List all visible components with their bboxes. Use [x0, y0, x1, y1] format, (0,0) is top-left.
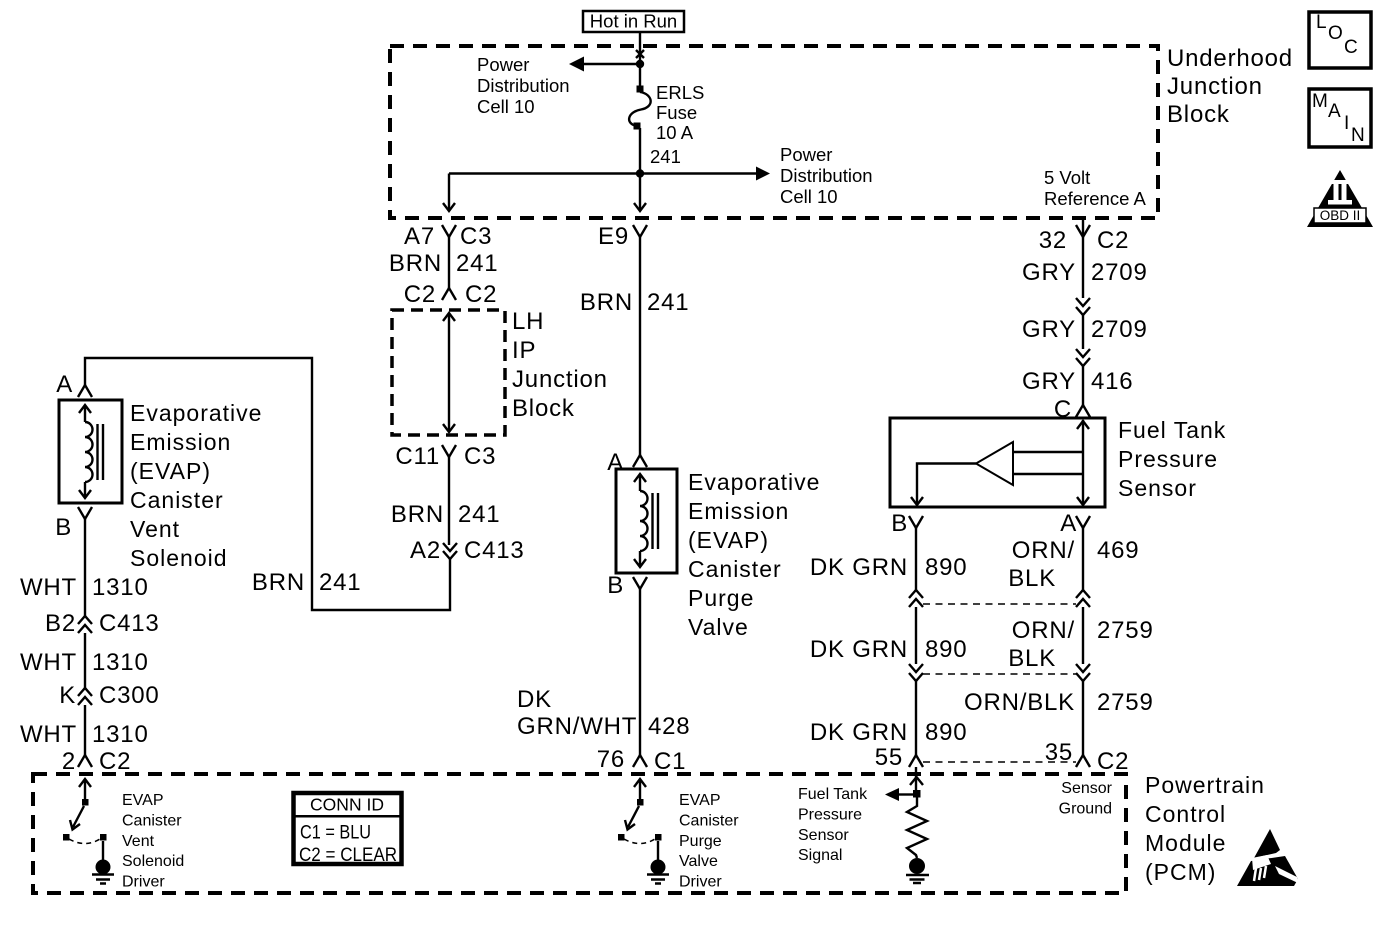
- wire: 241 distribution bus: [449, 172, 757, 174]
- connector boundary (PCM C2): [923, 761, 1076, 763]
- connector pin 55: [909, 755, 923, 767]
- svg-text:BRN: BRN: [580, 289, 633, 316]
- underhood junction block boundary: [390, 46, 1158, 218]
- transistor node (vent driver): [96, 860, 111, 875]
- svg-text:C2: C2: [1097, 748, 1129, 775]
- wire WHT 1310 segment 2: [84, 633, 86, 688]
- connector A7 / C3: [442, 225, 456, 237]
- connector purge valve pin B: [633, 577, 647, 589]
- svg-text:BRN: BRN: [389, 250, 442, 277]
- connector A2 / C413: [443, 543, 457, 559]
- inline connector pair row 1: [909, 590, 1090, 607]
- svg-text:C1 = BLU: C1 = BLU: [300, 823, 371, 844]
- svg-text:416: 416: [1091, 368, 1133, 395]
- purge valve coil: [634, 474, 648, 567]
- connector pin 35 / C2: [1076, 755, 1090, 767]
- connector C11 / C3: [442, 445, 456, 457]
- wire WHT 1310 segment 3: [84, 705, 86, 755]
- ESD warning symbol: [1237, 829, 1300, 886]
- wire GRY 2709 segment 1: [1082, 237, 1084, 298]
- wire DK GRN/WHT 428: [639, 589, 641, 755]
- svg-text:241: 241: [456, 250, 498, 277]
- node Hot in Run: [583, 11, 684, 33]
- svg-text:GRY: GRY: [1022, 316, 1076, 343]
- svg-text:B: B: [891, 510, 908, 537]
- svg-text:BLK: BLK: [1008, 565, 1056, 592]
- svg-text:2709: 2709: [1091, 259, 1148, 286]
- svg-text:1310: 1310: [92, 649, 149, 676]
- inline connector (GRY splice 1): [1076, 298, 1090, 315]
- svg-text:C: C: [1344, 37, 1358, 58]
- svg-text:241: 241: [458, 501, 500, 528]
- connector B2 / C413: [78, 616, 92, 633]
- boundary crossing mark: [636, 50, 644, 58]
- svg-text:C2 = CLEAR: C2 = CLEAR: [299, 845, 397, 866]
- pull-up resistor R1 (FTP signal): [907, 797, 927, 858]
- svg-text:1310: 1310: [92, 574, 149, 601]
- connector boundary (row 2): [923, 673, 1076, 675]
- connector C2 / C2: [442, 288, 456, 300]
- EVAP canister purge valve L2 (box): [616, 469, 677, 573]
- fuse ERLS element: [629, 92, 651, 126]
- svg-text:B: B: [607, 572, 624, 599]
- wire: fuse to 241 bus: [639, 64, 641, 87]
- wire GRY 416: [1082, 366, 1084, 405]
- svg-text:BRN: BRN: [252, 569, 305, 596]
- CONN ID legend table: [294, 793, 402, 866]
- wire ORN/BLK 2759 segment 1: [1082, 607, 1084, 664]
- svg-text:32: 32: [1039, 227, 1067, 254]
- wire BRN 241 (C11 to A2): [448, 457, 450, 545]
- svg-text:ORN/: ORN/: [1012, 537, 1075, 564]
- sensor internal input leads: [1013, 452, 1083, 474]
- svg-text:O: O: [1328, 23, 1343, 44]
- badge MAIN: [1309, 89, 1371, 147]
- purge valve core bars: [653, 493, 659, 549]
- svg-text:2759: 2759: [1097, 689, 1154, 716]
- wire GRY 2709 segment 2: [1082, 315, 1084, 349]
- svg-text:A: A: [1328, 101, 1341, 122]
- svg-text:GRY: GRY: [1022, 368, 1076, 395]
- svg-text:WHT: WHT: [20, 721, 77, 748]
- connector pin 76 / C1: [633, 755, 647, 767]
- powertrain control module boundary: [33, 774, 1126, 893]
- svg-text:BRN: BRN: [391, 501, 444, 528]
- connector pin E9: [633, 225, 647, 237]
- wire WHT 1310 segment 1: [84, 519, 86, 616]
- svg-text:CONN ID: CONN ID: [310, 795, 384, 815]
- svg-text:C413: C413: [99, 610, 160, 637]
- LH IP junction block boundary: [392, 310, 505, 435]
- solenoid coil: [79, 405, 93, 498]
- svg-text:OBD II: OBD II: [1320, 208, 1361, 223]
- svg-text:K: K: [59, 682, 76, 709]
- sensor output wire to pin B: [911, 464, 976, 506]
- svg-text:N: N: [1351, 125, 1365, 146]
- connector purge valve pin A: [633, 455, 647, 467]
- svg-text:C1: C1: [654, 748, 686, 775]
- svg-text:A2: A2: [410, 537, 441, 564]
- svg-text:B2: B2: [45, 610, 76, 637]
- svg-text:M: M: [1312, 91, 1328, 112]
- svg-text:A: A: [1060, 510, 1077, 537]
- svg-text:C2: C2: [404, 281, 436, 308]
- wire DK GRN 890 segment 2: [915, 607, 917, 664]
- svg-text:I: I: [1344, 113, 1349, 134]
- junction dot (fuse feed): [636, 60, 644, 68]
- badge OBD II: [1307, 170, 1373, 227]
- svg-text:E9: E9: [598, 223, 629, 250]
- EVAP canister vent solenoid driver Q1: [63, 779, 107, 861]
- svg-text:2759: 2759: [1097, 617, 1154, 644]
- wire: tap to Power Distribution Cell 10 (left): [582, 63, 640, 65]
- wire BRN 241 (A2 to solenoid pin A): [85, 358, 450, 610]
- arrow to Power Distribution Cell 10 (right): [756, 167, 770, 181]
- svg-text:L: L: [1316, 12, 1327, 33]
- solenoid core bars: [98, 424, 104, 480]
- svg-text:C2: C2: [1097, 227, 1129, 254]
- svg-text:BLK: BLK: [1008, 645, 1056, 672]
- wire DK GRN 890 segment 3: [915, 681, 917, 755]
- svg-text:2709: 2709: [1091, 316, 1148, 343]
- svg-text:Hot in Run: Hot in Run: [590, 11, 677, 32]
- fuse ERLS terminal squares: [637, 86, 644, 93]
- wire: bus drop to pin E9: [634, 174, 646, 212]
- wire: bus drop to pin A7: [443, 174, 455, 212]
- connector sensor pin C: [1076, 405, 1090, 417]
- svg-text:241: 241: [319, 569, 361, 596]
- svg-text:WHT: WHT: [20, 574, 77, 601]
- inline connector pair row 2: [909, 664, 1090, 681]
- svg-text:C3: C3: [460, 223, 492, 250]
- svg-text:C300: C300: [99, 682, 160, 709]
- svg-text:428: 428: [648, 713, 690, 740]
- svg-text:2: 2: [62, 748, 76, 775]
- wire ORN/BLK 2759 segment 2: [1082, 681, 1084, 755]
- junction dot (241 bus): [636, 169, 644, 177]
- wire through LH IP junction block: [443, 313, 455, 432]
- svg-text:B: B: [55, 514, 72, 541]
- transistor node (purge driver): [651, 860, 666, 875]
- svg-text:C11: C11: [395, 443, 440, 470]
- svg-text:890: 890: [925, 554, 967, 581]
- svg-text:C2: C2: [99, 748, 131, 775]
- wire BRN 241 (A7 to C2): [448, 237, 450, 288]
- sensor internal supply wire: [1077, 420, 1089, 505]
- wire BRN 241 (E9 to purge valve pin A): [639, 237, 641, 455]
- EVAP canister purge valve driver Q2: [618, 779, 662, 861]
- svg-text:A: A: [56, 371, 73, 398]
- svg-text:C2: C2: [465, 281, 497, 308]
- connector pin 2 / C2: [78, 755, 92, 767]
- svg-text:DK GRN: DK GRN: [810, 719, 908, 746]
- svg-text:55: 55: [875, 744, 903, 771]
- connector pin 32 / C2: [1076, 225, 1090, 237]
- svg-text:DK GRN: DK GRN: [810, 636, 908, 663]
- svg-text:241: 241: [647, 289, 689, 316]
- fuel tank pressure sensor B1 (box): [890, 418, 1105, 507]
- inline connector (GRY splice 2): [1076, 349, 1090, 366]
- op-amp (sensing element): [976, 442, 1013, 485]
- wire: 5V reference drop from junction block: [1082, 218, 1084, 237]
- connector K / C300: [78, 688, 92, 705]
- svg-text:890: 890: [925, 636, 967, 663]
- svg-text:ORN/: ORN/: [1012, 617, 1075, 644]
- connector solenoid pin A: [78, 385, 92, 397]
- svg-text:DK: DK: [517, 686, 552, 713]
- svg-text:WHT: WHT: [20, 649, 77, 676]
- ground (purge driver): [647, 875, 669, 884]
- svg-text:GRN/WHT: GRN/WHT: [517, 713, 637, 740]
- connector solenoid pin B: [78, 507, 92, 519]
- svg-text:1310: 1310: [92, 721, 149, 748]
- svg-text:ORN/BLK: ORN/BLK: [964, 689, 1075, 716]
- wire DK GRN 890 segment 1: [915, 528, 917, 590]
- EVAP canister vent solenoid L1 (box): [59, 400, 122, 503]
- svg-text:A7: A7: [404, 223, 435, 250]
- svg-text:241: 241: [650, 146, 681, 167]
- svg-text:C3: C3: [464, 443, 496, 470]
- svg-text:890: 890: [925, 719, 967, 746]
- svg-text:DK GRN: DK GRN: [810, 554, 908, 581]
- transistor node (FTP signal): [909, 858, 925, 874]
- fuel tank pressure sensor signal input: [897, 767, 923, 798]
- svg-text:469: 469: [1097, 537, 1139, 564]
- connector boundary (row 1): [923, 603, 1076, 605]
- svg-text:76: 76: [597, 746, 625, 773]
- wire ORN/BLK 469: [1082, 528, 1084, 590]
- wire: Hot in Run down to fuse node: [639, 32, 641, 64]
- connector sensor pin A: [1076, 516, 1090, 528]
- ground (FTP signal): [906, 875, 929, 883]
- svg-text:GRY: GRY: [1022, 259, 1076, 286]
- ground (vent driver): [92, 875, 114, 884]
- svg-text:C413: C413: [464, 537, 525, 564]
- connector sensor pin B: [909, 516, 923, 528]
- badge LOC: [1309, 12, 1371, 68]
